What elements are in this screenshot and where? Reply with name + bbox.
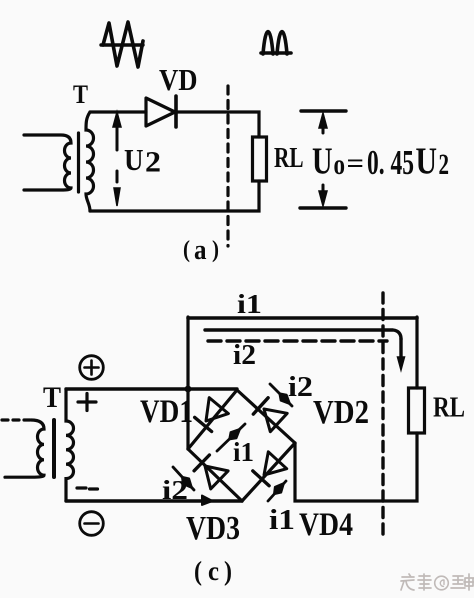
diode VD triangle xyxy=(146,98,175,126)
svg-text:0. 45: 0. 45 xyxy=(367,143,414,182)
diode VD3 bar xyxy=(194,455,209,471)
diode VD2 triangle xyxy=(264,409,287,432)
diode VD4 triangle xyxy=(264,452,287,475)
wire secondary top to diode (a) xyxy=(90,110,146,113)
svg-text:T: T xyxy=(43,381,61,414)
svg-text:VD1: VD1 xyxy=(140,394,193,430)
svg-text:=: = xyxy=(347,148,365,178)
Uo dimension top bar xyxy=(301,109,346,112)
voltage arrow U2 down arrowhead xyxy=(114,188,120,206)
svg-text:U: U xyxy=(124,143,144,177)
wire secondary top to bridge top corner xyxy=(66,387,237,390)
svg-text:i2: i2 xyxy=(162,475,188,505)
diode VD3 triangle xyxy=(205,466,228,489)
dashed cut line (a) xyxy=(226,86,229,246)
current arrow down to RL xyxy=(398,339,405,370)
transformer T core (a) xyxy=(77,133,80,192)
bridge edge VD4 (bottom-right) xyxy=(242,443,295,501)
svg-text:c: c xyxy=(208,556,219,586)
svg-text:a: a xyxy=(194,235,207,266)
wire RL bottom to secondary (a) xyxy=(90,181,259,211)
transformer T secondary winding (a) xyxy=(86,112,94,211)
diode VD cathode bar xyxy=(174,96,178,127)
transformer primary winding (c) xyxy=(5,420,44,477)
svg-text:i1: i1 xyxy=(269,505,295,536)
Uo dimension down arrow xyxy=(319,185,327,206)
svg-text:U: U xyxy=(416,141,438,183)
voltage arrow U2 upper shaft xyxy=(116,124,119,150)
svg-text:(: ( xyxy=(194,556,202,586)
plus terminal symbol circled xyxy=(80,356,104,380)
dashed separator line (c) xyxy=(381,293,384,537)
wire secondary bottom to bridge bottom corner xyxy=(66,499,242,502)
svg-text:VD: VD xyxy=(159,62,198,97)
diode VD2 bar xyxy=(253,398,268,414)
diode VD1 bar xyxy=(195,417,212,431)
current arrow i1 (centre) xyxy=(217,424,245,451)
transformer secondary winding (c) xyxy=(66,389,74,501)
svg-text:RL: RL xyxy=(274,142,304,174)
current path line i2 (dashed) xyxy=(208,339,387,342)
svg-text:): ) xyxy=(224,556,232,586)
wire RL bottom to bridge right corner xyxy=(295,433,417,501)
svg-text:i2: i2 xyxy=(288,372,313,403)
svg-text:i1: i1 xyxy=(233,437,254,467)
svg-text:VD2: VD2 xyxy=(313,394,369,431)
current arrow i2 (lower left) xyxy=(173,467,194,490)
minus polarity mark xyxy=(77,488,98,489)
current path line i1 (solid) xyxy=(205,330,401,339)
plus polarity mark xyxy=(78,394,96,411)
bridge edge VD1 (top-left) xyxy=(188,390,237,449)
svg-text:): ) xyxy=(212,237,219,263)
transformer primary top lead dashed (c) xyxy=(2,418,31,421)
voltage arrow U2 up arrowhead xyxy=(113,112,121,127)
minus terminal symbol circled xyxy=(80,512,104,536)
svg-text:i1: i1 xyxy=(237,289,262,319)
wire vertical junction riser xyxy=(186,317,189,449)
wire top output rail xyxy=(188,316,417,320)
svg-text:o: o xyxy=(334,148,346,181)
Uo dimension up arrow xyxy=(319,113,327,133)
current arrowhead on bottom wire xyxy=(202,496,213,506)
wire right branch down to RL xyxy=(415,317,418,388)
svg-text:i2: i2 xyxy=(233,340,256,371)
bridge edge VD2 (top-right) xyxy=(237,390,295,443)
sine wave input symbol xyxy=(101,22,143,67)
diode VD4 bar xyxy=(253,471,269,486)
bridge edge VD3 (bottom-left) xyxy=(188,449,242,501)
svg-text:2: 2 xyxy=(439,148,450,181)
svg-text:(: ( xyxy=(183,237,190,263)
diode VD1 triangle xyxy=(206,398,228,421)
resistor RL (c) xyxy=(409,388,425,433)
svg-text:VD3: VD3 xyxy=(186,510,240,547)
svg-text:U: U xyxy=(312,141,333,183)
svg-text:T: T xyxy=(73,80,88,109)
current arrow i1 (lower right) xyxy=(268,481,286,501)
wire diode to load corner (a) xyxy=(176,112,259,137)
svg-text:VD4: VD4 xyxy=(299,507,353,543)
transformer core (c) xyxy=(52,420,56,477)
transformer T primary winding (a) xyxy=(24,135,71,190)
Uo dimension bottom bar xyxy=(300,206,346,209)
svg-text:RL: RL xyxy=(433,393,465,424)
watermark 头条@电巢 xyxy=(401,574,474,590)
junction node xyxy=(185,386,192,393)
half-wave output symbol xyxy=(261,32,291,55)
svg-text:2: 2 xyxy=(145,146,161,179)
voltage arrow U2 lower dash xyxy=(116,171,119,182)
current arrow i2 (upper right) xyxy=(270,384,292,406)
resistor RL (a) xyxy=(253,137,267,181)
